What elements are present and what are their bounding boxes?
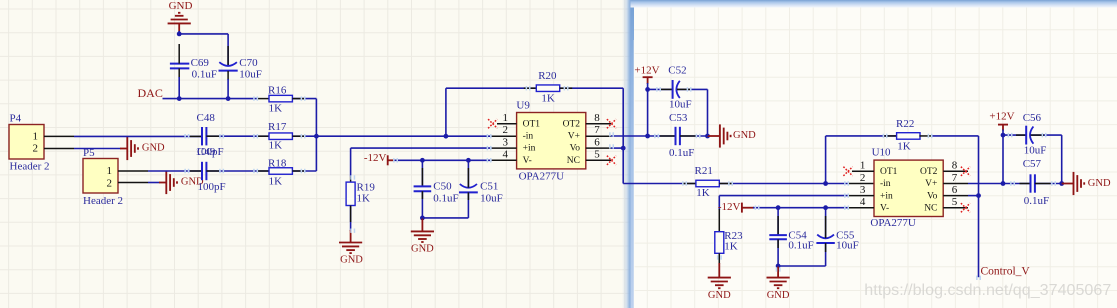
wire P4 pin1 to C48 xyxy=(74,135,202,137)
wire C70 down to DAC rail xyxy=(227,79,229,99)
wire Vo down and right to R21 xyxy=(623,148,696,183)
svg-text:100pF: 100pF xyxy=(198,181,226,193)
svg-text:R18: R18 xyxy=(268,157,287,169)
value 1K (R19) xyxy=(357,192,371,204)
pin 8 OT2 of U9 xyxy=(563,112,611,129)
label R22 xyxy=(896,118,914,130)
wire feedback up from -in xyxy=(445,88,447,136)
label C51 xyxy=(480,181,498,193)
label C55 xyxy=(836,229,855,241)
label C54 xyxy=(788,229,807,241)
junction bus / -in wire xyxy=(314,134,319,139)
svg-text:5: 5 xyxy=(594,149,600,161)
svg-text:1: 1 xyxy=(860,160,866,172)
label C70 xyxy=(239,57,258,69)
svg-text:C51: C51 xyxy=(480,181,498,193)
label C52 xyxy=(668,64,686,76)
svg-text:C48: C48 xyxy=(197,112,216,124)
value 10uF (C56) xyxy=(1024,145,1047,157)
svg-text:GND: GND xyxy=(767,290,790,301)
wire U10 V+ to +12V node xyxy=(968,183,1003,185)
capacitor C51 (polarized) xyxy=(459,184,478,192)
net label Control_V xyxy=(981,265,1031,277)
junction bottom rail / ground (right) xyxy=(776,264,781,269)
value 1K (R18) xyxy=(269,176,283,188)
svg-text:10uF: 10uF xyxy=(1024,145,1047,157)
no-connect X at U10 pin 5 xyxy=(961,203,970,212)
resistor R19 xyxy=(346,182,355,205)
label C69 xyxy=(191,57,210,69)
svg-text:NC: NC xyxy=(924,203,937,213)
wire C51 bottom to rail xyxy=(467,192,469,218)
label C56 xyxy=(1023,112,1042,124)
svg-text:7: 7 xyxy=(594,124,600,136)
wire C57 to ground node xyxy=(1035,183,1062,185)
junction -12V/C51 xyxy=(466,158,471,163)
svg-text:1K: 1K xyxy=(269,139,283,151)
pin 1 OT1 of U10 xyxy=(852,160,898,177)
svg-text:3: 3 xyxy=(503,136,509,148)
junction R21 out / feedback tap xyxy=(823,181,828,186)
svg-text:7: 7 xyxy=(952,172,958,184)
label C49 (overlapping) xyxy=(197,146,216,158)
svg-text:-in: -in xyxy=(523,132,534,142)
junction -12V/C54 xyxy=(776,205,781,210)
value 100pF (C48) xyxy=(196,146,224,158)
svg-text:2: 2 xyxy=(860,172,866,184)
svg-text:C50: C50 xyxy=(433,181,452,193)
svg-text:OPA277U: OPA277U xyxy=(519,171,564,183)
wire R17 to bus xyxy=(292,135,316,137)
wire P4 pin2 to ground xyxy=(74,148,121,150)
wire P5 pin1 to C49 xyxy=(148,170,202,172)
svg-text:1K: 1K xyxy=(357,192,371,204)
wire U10 Vo to output node xyxy=(968,195,979,197)
label U10 xyxy=(872,147,891,159)
wire +12V down to V+ node xyxy=(647,83,649,136)
svg-text:5: 5 xyxy=(952,196,958,208)
svg-text:V-: V- xyxy=(880,203,889,213)
svg-text:DAC: DAC xyxy=(138,86,163,100)
pin 7 V+ of U10 xyxy=(925,172,968,189)
svg-text:10uF: 10uF xyxy=(239,68,262,80)
value 0.1uF (C53) xyxy=(669,147,694,159)
wire +12V node to C53 xyxy=(648,135,676,137)
capacitor C56 (polarized) xyxy=(1026,126,1033,145)
power ground under R23 xyxy=(708,278,731,301)
svg-text:GND: GND xyxy=(708,290,731,301)
svg-text:1K: 1K xyxy=(269,102,283,114)
svg-text:-in: -in xyxy=(880,179,891,189)
pin 4 V- of U9 xyxy=(503,149,532,166)
resistor R18 xyxy=(269,168,292,175)
svg-text:4: 4 xyxy=(503,149,509,161)
label R16 xyxy=(268,84,287,96)
resistor R21 xyxy=(696,180,719,187)
label Header 2 (P5) xyxy=(83,195,123,207)
svg-text:C49: C49 xyxy=(197,146,216,158)
svg-text:0.1uF: 0.1uF xyxy=(788,240,813,252)
svg-text:GND: GND xyxy=(411,243,434,254)
no-connect X at U10 pin 8 xyxy=(961,167,970,176)
capacitor C54 xyxy=(769,235,787,239)
no-connect X at U10 pin 1 xyxy=(843,167,852,176)
wire endpoint markers xyxy=(184,86,1056,280)
wire DAC to R16 xyxy=(257,98,269,100)
svg-text:https://blog.csdn.net/qq_37405: https://blog.csdn.net/qq_37405067 xyxy=(864,281,1111,299)
junction C56/C57/ground xyxy=(1059,181,1064,186)
junction -12V/C50 xyxy=(420,158,425,163)
junction +12V/C56 xyxy=(1001,133,1006,138)
svg-text:2: 2 xyxy=(107,177,113,189)
junction V+/+12V (right) xyxy=(1001,181,1006,186)
wire R21 to U10 -in xyxy=(719,183,874,185)
svg-text:8: 8 xyxy=(594,112,600,124)
svg-text:OT2: OT2 xyxy=(563,119,581,129)
svg-text:R20: R20 xyxy=(538,70,557,82)
svg-text:3: 3 xyxy=(860,184,866,196)
svg-text:+12V: +12V xyxy=(634,64,659,76)
svg-text:6: 6 xyxy=(952,184,958,196)
op-amp U9 body xyxy=(517,113,586,169)
wire top rail to C70 branch xyxy=(179,33,228,35)
wire C56 to right branch xyxy=(1031,135,1062,183)
capacitor C69 xyxy=(170,44,189,78)
wire C50 bottom lead xyxy=(421,191,423,218)
svg-text:10uF: 10uF xyxy=(480,192,503,204)
svg-text:GND: GND xyxy=(169,0,193,12)
label R23 xyxy=(724,230,743,242)
pin 6 Vo of U10 xyxy=(927,184,968,201)
svg-text:1K: 1K xyxy=(724,240,738,252)
junction -12V/C55 xyxy=(823,205,828,210)
svg-text:1K: 1K xyxy=(541,93,555,105)
label P5 xyxy=(83,147,95,159)
svg-text:V+: V+ xyxy=(568,132,580,142)
svg-text:C57: C57 xyxy=(1023,158,1042,170)
svg-text:1: 1 xyxy=(107,165,113,177)
value 1K (R21) xyxy=(696,187,710,199)
value 10uF (C70) xyxy=(239,68,262,80)
svg-text:2: 2 xyxy=(503,124,509,136)
capacitor C57 xyxy=(1031,174,1035,192)
resistor R23 xyxy=(715,232,724,254)
svg-text:R22: R22 xyxy=(896,118,914,130)
svg-text:Vo: Vo xyxy=(570,144,581,154)
power ground port right of C57 xyxy=(1062,172,1111,195)
label R18 xyxy=(268,157,287,169)
capacitor C52 (polarized) xyxy=(673,80,680,99)
label U9 xyxy=(516,99,530,111)
junction DAC/C70 xyxy=(226,96,231,101)
label R20 xyxy=(538,70,557,82)
svg-text:C56: C56 xyxy=(1023,112,1042,124)
junction bottom rail / ground xyxy=(420,216,425,221)
no-connect X at U9 pin 5 xyxy=(607,156,616,165)
wire bus to U9 -in xyxy=(316,135,516,137)
wire U9 +in to R19 xyxy=(351,148,517,182)
power ground port right of C53 xyxy=(708,124,757,147)
power ground under R19 xyxy=(339,230,363,265)
pin 1 of P5 xyxy=(107,165,149,177)
wire C53 to ground node xyxy=(680,135,708,137)
svg-text:Control_V: Control_V xyxy=(981,265,1031,277)
value 1K (R16) xyxy=(269,102,283,114)
svg-text:C53: C53 xyxy=(669,112,688,124)
svg-text:U9: U9 xyxy=(516,99,530,111)
wire R16 to bus corner xyxy=(292,98,316,100)
pin 2 of P5 xyxy=(107,177,149,189)
value 10uF (C52) xyxy=(669,98,692,110)
label P4 xyxy=(10,112,22,124)
svg-text:OT1: OT1 xyxy=(523,119,541,129)
svg-text:-12V: -12V xyxy=(364,152,387,164)
wire U9 V+ to +12V node xyxy=(611,135,648,137)
resistor R16 xyxy=(269,95,292,102)
wire C69 down to DAC rail xyxy=(178,77,180,99)
wire bottom rail C54-C55 xyxy=(778,265,826,267)
svg-text:0.1uF: 0.1uF xyxy=(1024,195,1049,207)
wire +12V node to C56 xyxy=(1003,134,1026,136)
label C48 xyxy=(197,112,216,124)
junction V+/+12V xyxy=(645,134,650,139)
svg-text:Header 2: Header 2 xyxy=(83,195,123,207)
svg-text:C70: C70 xyxy=(239,57,258,69)
wire Vo down to Control_V xyxy=(978,196,980,278)
wire C52 to right branch xyxy=(677,89,708,136)
svg-text:GND: GND xyxy=(142,143,165,154)
value 0.1uF (C69) xyxy=(192,68,217,80)
svg-text:10uF: 10uF xyxy=(669,98,692,110)
junction feedback tap at -in xyxy=(444,134,449,139)
svg-text:+in: +in xyxy=(523,144,536,154)
svg-text:0.1uF: 0.1uF xyxy=(192,68,217,80)
pin 1 OT1 of U9 xyxy=(497,112,540,129)
svg-text:2: 2 xyxy=(33,143,39,155)
svg-text:OT1: OT1 xyxy=(880,167,898,177)
wire C50 top lead xyxy=(421,160,423,186)
value 0.1uF (C50) xyxy=(433,192,458,204)
label Header 2 (P4) xyxy=(10,161,50,173)
value 1K (R17) xyxy=(269,139,283,151)
pin 3 +in of U10 xyxy=(860,184,893,201)
svg-text:1: 1 xyxy=(33,131,39,143)
power port -12V (U9) xyxy=(364,152,395,165)
svg-text:8: 8 xyxy=(952,160,958,172)
svg-text:1K: 1K xyxy=(897,140,911,152)
label R19 xyxy=(357,181,376,193)
svg-text:+12V: +12V xyxy=(989,111,1014,123)
pin 3 +in of U9 xyxy=(503,136,536,153)
pin 7 V+ of U9 xyxy=(568,124,611,141)
wire P5 pin2 to ground xyxy=(148,182,160,184)
svg-text:R21: R21 xyxy=(695,165,713,177)
junction Vo/feedback xyxy=(621,146,626,151)
wire feedback to R20 xyxy=(446,87,536,89)
wire from top ground to node xyxy=(178,31,180,35)
pin 5 NC of U10 xyxy=(924,196,968,213)
label C57 xyxy=(1023,158,1042,170)
wire U10 +in to R23 xyxy=(719,196,874,232)
wire C55 top lead xyxy=(825,208,827,238)
value 0.1uF (C54) xyxy=(788,240,813,252)
resistor R17 xyxy=(269,133,292,140)
wire feedback up from U10 -in xyxy=(825,136,827,184)
pin 4 V- of U10 xyxy=(860,196,889,213)
junction C52/C53/ground xyxy=(705,134,710,139)
pin 2 -in of U10 xyxy=(860,172,891,189)
wire R20 to Vo node xyxy=(560,88,624,148)
wire feedback to R22 xyxy=(826,135,897,137)
label C50 xyxy=(433,181,452,193)
svg-text:+in: +in xyxy=(880,191,893,201)
pin 2 -in of U9 xyxy=(503,124,534,141)
svg-text:U10: U10 xyxy=(872,147,891,159)
svg-text:1K: 1K xyxy=(696,187,710,199)
svg-text:1K: 1K xyxy=(269,176,283,188)
power port -12V (U10) xyxy=(718,201,754,213)
wire V+ node to C57 xyxy=(1003,183,1030,185)
wire C54 top lead xyxy=(777,208,779,235)
no-connect X at U9 pin 1 xyxy=(488,119,497,128)
svg-text:6: 6 xyxy=(594,136,600,148)
capacitor C55 (polarized) xyxy=(816,235,834,243)
no-connect X at U9 pin 8 xyxy=(607,119,616,128)
power ground port at P5 pin 2 xyxy=(159,171,204,194)
svg-text:4: 4 xyxy=(860,196,866,208)
wire R19 to ground xyxy=(350,206,352,232)
value 100pF (C49) xyxy=(198,181,226,193)
wire R23 to ground xyxy=(718,253,720,277)
wire +12V down to V+ node (right) xyxy=(1002,130,1004,184)
svg-text:10uF: 10uF xyxy=(836,240,859,252)
wire R22 to Vo node xyxy=(919,136,978,196)
op-amp U10 body xyxy=(874,160,943,216)
svg-text:0.1uF: 0.1uF xyxy=(669,147,694,159)
power port +12V (right) xyxy=(989,111,1014,131)
wire bottom rail C50-C51 xyxy=(422,217,468,219)
svg-text:C52: C52 xyxy=(668,64,686,76)
capacitor C53 xyxy=(676,127,680,145)
svg-text:-12V: -12V xyxy=(718,201,741,213)
value 0.1uF (C57) xyxy=(1024,195,1049,207)
power ground port at P4 pin 2 xyxy=(120,137,165,160)
resistor R22 xyxy=(897,133,920,140)
junction DAC/C69 xyxy=(177,96,182,101)
wire C49 to R18 xyxy=(206,170,269,172)
svg-text:GND: GND xyxy=(340,254,363,265)
svg-text:R17: R17 xyxy=(268,121,287,133)
value 1K (R22) xyxy=(897,140,911,152)
pin 8 OT2 of U10 xyxy=(920,160,968,177)
pin 5 NC of U9 xyxy=(567,149,611,166)
connector P5 (Header 2) xyxy=(83,159,118,194)
svg-text:Header 2: Header 2 xyxy=(10,161,50,173)
svg-text:GND: GND xyxy=(733,130,756,141)
wire DAC rail xyxy=(163,98,258,100)
svg-text:0.1uF: 0.1uF xyxy=(433,192,458,204)
junction Vo/feedback (U10) xyxy=(976,193,981,198)
value 1K (R20) xyxy=(541,93,555,105)
wire C55 bottom to rail xyxy=(825,243,827,266)
junction +12V/C52 xyxy=(645,87,650,92)
power ground symbol (top, above C69/C70) xyxy=(168,0,193,32)
svg-text:GND: GND xyxy=(1088,178,1111,189)
svg-text:C69: C69 xyxy=(191,57,210,69)
pin 2 of P4 xyxy=(33,143,75,155)
svg-text:V-: V- xyxy=(523,156,532,166)
wire R18 to bus corner xyxy=(292,170,316,172)
svg-text:NC: NC xyxy=(567,156,580,166)
resistor R20 xyxy=(536,85,559,92)
svg-text:V+: V+ xyxy=(925,179,937,189)
wire C70 branch vertical xyxy=(227,34,229,66)
svg-text:R16: R16 xyxy=(268,84,287,96)
power ground under C54 rail xyxy=(767,267,790,301)
wire C54 bottom lead xyxy=(777,239,779,266)
capacitor C48 xyxy=(202,127,206,145)
wire C48 to R17 xyxy=(206,135,269,137)
label C53 xyxy=(669,112,688,124)
wire summing bus vertical xyxy=(315,99,317,171)
label OPA277U (U9) xyxy=(519,171,564,183)
watermark text xyxy=(864,281,1111,299)
wire C51 top lead xyxy=(467,160,469,187)
pin 6 Vo of U9 xyxy=(570,136,611,153)
connector P4 (Header 2) xyxy=(9,125,44,160)
value 10uF (C51) xyxy=(480,192,503,204)
label R21 xyxy=(695,165,713,177)
pin 1 of P4 xyxy=(33,131,75,143)
wire +12V node to C52 xyxy=(648,88,672,90)
svg-text:OPA277U: OPA277U xyxy=(870,217,915,229)
svg-text:OT2: OT2 xyxy=(920,167,938,177)
capacitor C49 xyxy=(202,162,206,180)
capacitor C50 xyxy=(414,186,432,191)
value 1K (R23) xyxy=(724,240,738,252)
net label DAC xyxy=(138,86,163,100)
junction at top rail / C69 xyxy=(177,32,182,37)
label OPA277U (U10) xyxy=(870,217,915,229)
wire -12V rail to U9 V- xyxy=(394,159,517,161)
svg-text:Vo: Vo xyxy=(927,191,938,201)
window border (stitched screenshot edge) xyxy=(622,0,1117,308)
power port +12V (left) xyxy=(634,64,659,84)
capacitor C70 (polarized) xyxy=(219,62,238,80)
power ground under C50 rail xyxy=(411,219,434,255)
svg-text:1: 1 xyxy=(503,112,509,124)
wire -12V rail to U10 V- xyxy=(753,207,874,209)
label R17 xyxy=(268,121,287,133)
value 10uF (C55) xyxy=(836,240,859,252)
svg-text:P4: P4 xyxy=(10,112,22,124)
wire U9 Vo to output node xyxy=(611,147,623,149)
